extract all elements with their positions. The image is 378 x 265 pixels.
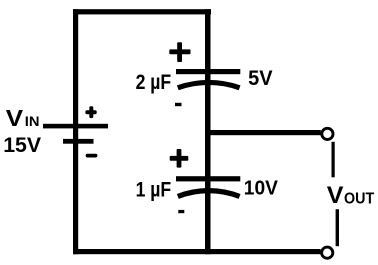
svg-text:5V: 5V (248, 67, 272, 90)
capacitor C2 polarity plus sign (170, 149, 189, 168)
svg-text:OUT: OUT (344, 190, 375, 207)
svg-text:1 µF: 1 µF (136, 179, 172, 202)
battery V_IN negative plate (short) (63, 139, 94, 144)
svg-text:2 µF: 2 µF (136, 71, 172, 94)
wire center branch (through capacitors C1 and C2) (205, 9, 211, 254)
terminal circle V_OUT plus (top right) (322, 128, 333, 139)
capacitor C1 2uF top flat plate (176, 69, 240, 74)
capacitor C1 2uF bottom curved plate (178, 82, 240, 87)
capacitor C1 polarity plus sign (169, 42, 190, 62)
wire bottom (from left branch to V_OUT minus terminal) (73, 249, 321, 254)
battery polarity minus sign (86, 154, 98, 158)
wire V_OUT lower stub (336, 209, 339, 246)
capacitor C2 polarity minus sign (178, 210, 184, 213)
svg-text:V: V (327, 182, 344, 209)
battery V_IN positive plate (long) (43, 124, 108, 129)
wire top (from left branch to center branch) (73, 9, 211, 14)
svg-text:IN: IN (25, 114, 40, 129)
wire middle node between C1 and C2 to V_OUT plus terminal (205, 130, 321, 135)
capacitor C1 polarity minus sign (175, 103, 182, 106)
svg-text:15V: 15V (3, 133, 42, 157)
capacitor C2 1uF bottom curved plate (178, 191, 240, 197)
terminal circle V_OUT minus (bottom right) (322, 247, 333, 258)
wire V_OUT upper stub (332, 142, 335, 178)
battery polarity plus sign (85, 106, 96, 118)
svg-text:V: V (6, 105, 24, 131)
capacitor C2 1uF top flat plate (176, 176, 240, 181)
svg-text:10V: 10V (244, 176, 278, 199)
wire left branch (through battery, top corner to bottom corner) (73, 9, 78, 254)
